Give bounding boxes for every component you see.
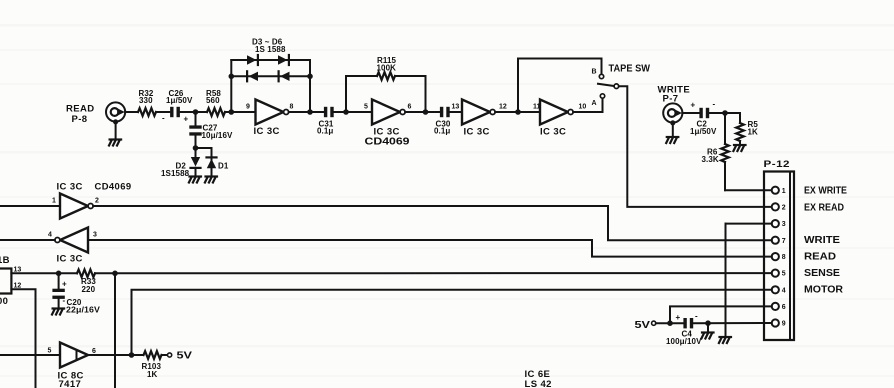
wire bbox=[181, 111, 207, 113]
wire bbox=[162, 354, 168, 356]
connector P-12 bbox=[764, 159, 795, 340]
capacitor C2 bbox=[690, 100, 717, 137]
ground (pin 3) bbox=[719, 337, 731, 343]
svg-text:1B: 1B bbox=[0, 255, 10, 266]
svg-text:CD4069: CD4069 bbox=[365, 136, 410, 148]
svg-text:8: 8 bbox=[782, 254, 786, 261]
diode D6 bbox=[279, 71, 290, 81]
svg-text:MOTOR: MOTOR bbox=[804, 284, 843, 296]
wire (vertical bus down) bbox=[114, 273, 116, 388]
svg-text:TAPE SW: TAPE SW bbox=[609, 63, 651, 75]
svg-text:6: 6 bbox=[782, 304, 786, 311]
svg-text:13: 13 bbox=[14, 266, 22, 273]
diode D5 bbox=[247, 71, 258, 81]
wire bbox=[450, 111, 462, 113]
wire bbox=[196, 148, 212, 160]
ground (D1) bbox=[205, 168, 217, 182]
node (switch B tap) bbox=[515, 109, 521, 115]
wire (to pin 6) bbox=[670, 306, 772, 323]
svg-text:9: 9 bbox=[246, 103, 250, 110]
svg-text:1S1588: 1S1588 bbox=[161, 169, 190, 178]
wire (second rail) bbox=[231, 75, 310, 77]
wire (U7 output) bbox=[88, 354, 144, 356]
resistor R6 bbox=[702, 113, 729, 190]
node (feedback left) bbox=[343, 109, 349, 115]
node (C27 tap) bbox=[193, 109, 199, 115]
wire (R6 to pin 1) bbox=[725, 189, 772, 191]
svg-text:+: + bbox=[691, 101, 696, 110]
IC 11B 7400 gate (partial) bbox=[0, 255, 21, 307]
svg-text:5: 5 bbox=[364, 103, 368, 110]
diode D4 bbox=[278, 55, 289, 65]
resistor R103 bbox=[142, 351, 162, 379]
wire bbox=[289, 111, 324, 113]
capacitor C20 bbox=[52, 273, 100, 314]
inverter U4 IC 3C (pins 11-10) bbox=[533, 100, 586, 138]
node (feedback right) bbox=[423, 109, 429, 115]
svg-text:1μ/50V: 1μ/50V bbox=[690, 127, 717, 136]
svg-text:1: 1 bbox=[52, 197, 56, 204]
node (right rail / second row) bbox=[307, 74, 313, 80]
wire (switch pole to pin 2) bbox=[619, 86, 772, 207]
node (5V junction) bbox=[667, 320, 673, 326]
svg-text:1S 1588: 1S 1588 bbox=[255, 45, 286, 54]
pin 6 bbox=[772, 303, 786, 311]
node (right rail junction) bbox=[307, 109, 313, 115]
svg-text:0.1μ: 0.1μ bbox=[434, 127, 450, 136]
capacitor C4 bbox=[666, 312, 702, 347]
wire bbox=[495, 111, 540, 113]
svg-text:1K: 1K bbox=[748, 128, 759, 137]
svg-text:22μ/16V: 22μ/16V bbox=[66, 306, 101, 315]
resistor R32 bbox=[138, 89, 156, 116]
terminal 5V (motor supply) bbox=[635, 319, 656, 331]
capacitor C26 bbox=[162, 89, 193, 124]
node (diode split) bbox=[193, 145, 199, 151]
resistor R58 bbox=[206, 89, 225, 116]
svg-text:A: A bbox=[592, 100, 597, 107]
ground (R5) bbox=[733, 145, 745, 151]
svg-text:B: B bbox=[592, 69, 597, 76]
svg-text:P-8: P-8 bbox=[72, 114, 88, 125]
wire (U5 input) bbox=[0, 205, 60, 207]
node (C2 out) bbox=[722, 110, 728, 116]
wire (U7 input) bbox=[0, 354, 60, 356]
pin 4 bbox=[772, 286, 786, 294]
svg-text:6: 6 bbox=[92, 348, 96, 355]
wire bbox=[156, 111, 169, 113]
svg-text:P-7: P-7 bbox=[663, 94, 679, 105]
terminal 5V (R103 pullup) bbox=[168, 349, 193, 361]
node (left rail / second row) bbox=[229, 74, 235, 80]
wire (right rail) bbox=[309, 60, 311, 112]
diode D2 bbox=[161, 148, 201, 178]
ground (C4) bbox=[701, 323, 713, 338]
svg-text:+: + bbox=[62, 280, 67, 289]
svg-text:-: - bbox=[63, 296, 66, 305]
buffer U7 IC 8C 7417 (pins 5-6) bbox=[48, 343, 97, 388]
svg-text:1K: 1K bbox=[147, 370, 158, 379]
resistor R5 bbox=[736, 113, 758, 145]
wire (C4 to pin 9) bbox=[693, 322, 772, 324]
svg-text:SENSE: SENSE bbox=[804, 267, 840, 279]
wire bbox=[225, 111, 256, 113]
capacitor C27 bbox=[189, 112, 233, 148]
svg-text:D1: D1 bbox=[218, 162, 229, 171]
diode D3 bbox=[247, 55, 258, 65]
resistor R115 feedback loop bbox=[346, 56, 426, 112]
svg-text:7: 7 bbox=[782, 238, 786, 245]
wire (pin 12 down) bbox=[11, 289, 35, 388]
wire (MOTOR line to pin 4) bbox=[132, 290, 772, 355]
svg-text:-: - bbox=[695, 312, 698, 321]
svg-text:IC 3C: IC 3C bbox=[464, 126, 490, 137]
svg-text:IC 3C: IC 3C bbox=[57, 182, 83, 193]
ground (D2) bbox=[189, 168, 201, 183]
diode D1 bbox=[207, 157, 229, 170]
inverter U1 IC 3C (pins 9-8) bbox=[246, 100, 294, 137]
capacitor C31 bbox=[317, 107, 334, 136]
pin 7 bbox=[772, 237, 786, 245]
svg-text:-: - bbox=[713, 100, 716, 109]
pin 3 bbox=[772, 220, 786, 228]
svg-text:100K: 100K bbox=[377, 63, 397, 72]
svg-text:4: 4 bbox=[782, 287, 786, 294]
capacitor C30 bbox=[434, 107, 451, 136]
wire (U6 input from pin 8) bbox=[88, 240, 772, 257]
inverter U5 IC 3C CD4069 (pins 1-2) bbox=[52, 182, 132, 219]
svg-text:2: 2 bbox=[782, 205, 786, 212]
pin 5 bbox=[772, 270, 786, 278]
inverter U2 IC 3C CD4069 (pins 5-6) bbox=[364, 100, 412, 148]
wire bbox=[125, 111, 138, 113]
pin 9 bbox=[772, 319, 786, 327]
wire (SENSE line to pin 5) bbox=[95, 272, 772, 274]
svg-text:+: + bbox=[676, 313, 681, 322]
svg-text:6: 6 bbox=[408, 103, 412, 110]
svg-text:330: 330 bbox=[139, 96, 153, 105]
inverter U3 IC 3C (pins 13-12) bbox=[452, 100, 507, 138]
svg-text:1μ/50V: 1μ/50V bbox=[166, 96, 193, 105]
svg-text:11: 11 bbox=[533, 103, 541, 110]
node (C4 ground tap) bbox=[705, 320, 711, 326]
svg-text:1: 1 bbox=[782, 188, 786, 195]
svg-text:IC 3C: IC 3C bbox=[540, 126, 566, 137]
svg-text:IC 3C: IC 3C bbox=[57, 254, 83, 265]
switch TAPE SW bbox=[592, 63, 651, 107]
svg-text:7417: 7417 bbox=[59, 379, 82, 388]
node (U7 output junction) bbox=[129, 352, 135, 358]
svg-text:CD4069: CD4069 bbox=[95, 182, 132, 193]
svg-text:5: 5 bbox=[782, 271, 786, 278]
inverter U6 IC 3C (pins 4-3, facing left) bbox=[48, 228, 97, 265]
svg-text:LS 42: LS 42 bbox=[525, 379, 552, 388]
resistor R33 bbox=[77, 270, 96, 295]
wire (to switch contact B) bbox=[518, 59, 602, 113]
wire (top rail) bbox=[231, 59, 310, 61]
wire bbox=[334, 111, 372, 113]
ground (C20) bbox=[52, 309, 64, 315]
svg-text:WRITE: WRITE bbox=[804, 234, 840, 246]
connector P-7 WRITE jack bbox=[658, 85, 691, 123]
svg-text:0.1μ: 0.1μ bbox=[317, 127, 333, 136]
wire bbox=[656, 322, 684, 324]
svg-text:8: 8 bbox=[290, 103, 294, 110]
diode network D3~D6 label bbox=[252, 38, 286, 54]
wire (pin 3 to ground) bbox=[726, 224, 772, 337]
svg-text:5: 5 bbox=[48, 347, 52, 354]
connector P-8 READ jack bbox=[66, 102, 125, 124]
svg-text:00: 00 bbox=[0, 296, 8, 307]
svg-text:-: - bbox=[162, 114, 165, 123]
svg-text:EX READ: EX READ bbox=[804, 201, 844, 213]
pin 8 bbox=[772, 253, 786, 261]
svg-text:3.3K: 3.3K bbox=[702, 155, 719, 164]
svg-text:10μ/16V: 10μ/16V bbox=[202, 131, 234, 140]
svg-text:READ: READ bbox=[804, 251, 836, 263]
node (R33 out) bbox=[112, 271, 118, 277]
ground (READ jack) bbox=[109, 119, 121, 145]
svg-text:9: 9 bbox=[782, 321, 786, 328]
svg-text:13: 13 bbox=[452, 103, 460, 110]
svg-text:4: 4 bbox=[48, 231, 52, 238]
pin 1 bbox=[772, 187, 786, 195]
svg-text:5V: 5V bbox=[635, 319, 651, 331]
wire bbox=[709, 112, 740, 114]
svg-text:3: 3 bbox=[782, 221, 786, 228]
wire (left rail) bbox=[230, 60, 232, 112]
svg-text:3: 3 bbox=[93, 231, 97, 238]
svg-text:10: 10 bbox=[579, 103, 587, 110]
svg-text:220: 220 bbox=[82, 285, 96, 294]
svg-text:5V: 5V bbox=[177, 349, 193, 361]
svg-text:560: 560 bbox=[206, 96, 220, 105]
svg-text:EX WRITE: EX WRITE bbox=[804, 184, 847, 196]
pin 2 bbox=[772, 203, 786, 211]
wire bbox=[405, 111, 440, 113]
node (left rail junction) bbox=[229, 109, 235, 115]
wire (pin 13 to SENSE line) bbox=[11, 272, 77, 274]
IC 6E LS42 label bbox=[525, 369, 552, 388]
svg-text:100μ/10V: 100μ/10V bbox=[666, 337, 702, 346]
wire (U5 output to pin 7) bbox=[93, 206, 772, 240]
svg-text:12: 12 bbox=[499, 103, 507, 110]
node (C20 tap) bbox=[56, 271, 62, 277]
wire (U6 output) bbox=[0, 239, 55, 241]
svg-text:IC 3C: IC 3C bbox=[254, 126, 280, 137]
svg-text:2: 2 bbox=[95, 197, 99, 204]
wire bbox=[682, 112, 699, 114]
wire (to switch contact A) bbox=[573, 98, 602, 112]
svg-text:+: + bbox=[184, 115, 189, 124]
ground (WRITE jack) bbox=[666, 120, 678, 143]
svg-text:P-12: P-12 bbox=[764, 159, 791, 170]
